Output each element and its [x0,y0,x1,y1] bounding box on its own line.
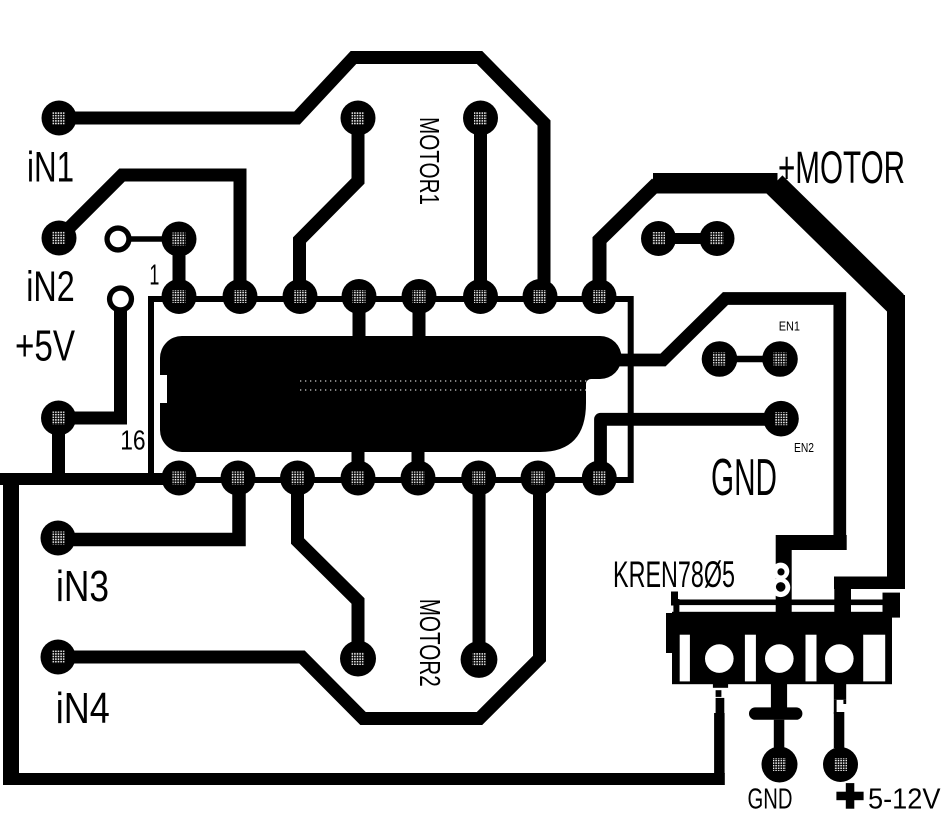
svg-text:GND: GND [748,784,793,816]
svg-text:KREN78Ø5: KREN78Ø5 [613,554,735,595]
svg-text:16: 16 [120,424,145,455]
svg-text:+MOTOR: +MOTOR [778,142,905,193]
svg-text:iN2: iN2 [26,263,74,311]
svg-text:iN4: iN4 [56,684,110,733]
svg-text:MOTOR2: MOTOR2 [413,599,445,687]
svg-text:iN3: iN3 [56,562,109,611]
svg-text:+5V: +5V [15,322,75,371]
svg-text:GND: GND [711,449,777,507]
svg-text:5-12V: 5-12V [868,784,941,816]
svg-text:EN2: EN2 [794,440,814,455]
svg-text:MOTOR1: MOTOR1 [414,117,445,205]
svg-text:iN1: iN1 [27,144,74,192]
svg-text:EN1: EN1 [779,319,800,334]
svg-text:1: 1 [149,259,159,291]
